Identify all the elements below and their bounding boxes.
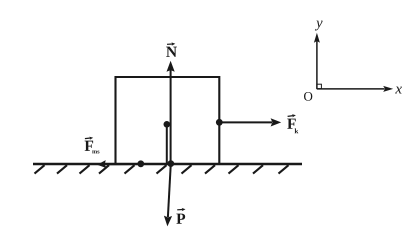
contact point dot (P application)	[167, 160, 174, 167]
x-axis	[317, 86, 393, 92]
y-axis	[314, 33, 320, 89]
ground line	[33, 163, 302, 165]
center of mass dot	[164, 121, 171, 128]
subscript ms	[92, 150, 97, 153]
right angle square at origin	[317, 84, 322, 89]
subscript k	[295, 128, 299, 133]
vector bar over P	[177, 208, 185, 211]
friction application dot	[137, 160, 144, 167]
vector bar over Fms	[85, 137, 93, 140]
vector P (weight, downward)	[164, 164, 172, 227]
vector Fk (applied force, rightward)	[219, 118, 281, 126]
vector bar over Fk	[288, 114, 296, 117]
label N	[166, 47, 177, 57]
label F of Fk	[287, 119, 296, 129]
label x	[395, 87, 402, 94]
label y	[315, 21, 323, 31]
label F of Fms	[85, 141, 94, 151]
ground hatching	[35, 165, 289, 173]
weight line from center of mass down to ground	[166, 124, 168, 163]
label O	[304, 92, 312, 101]
vector N (normal force, upward)	[167, 61, 175, 164]
vector Fms (friction force, leftward)	[97, 160, 141, 168]
right face dot (Fk application)	[216, 119, 223, 126]
vector bar over N	[167, 42, 175, 45]
block (box outline)	[116, 77, 220, 164]
label P	[176, 214, 185, 224]
